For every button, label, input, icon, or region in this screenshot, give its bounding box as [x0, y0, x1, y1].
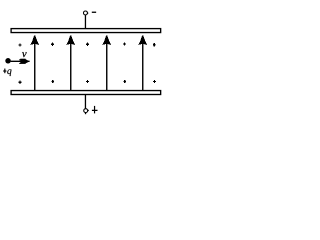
field dot upper 3: [86, 43, 89, 46]
field dot lower 3: [86, 80, 89, 83]
charge particle +q: [5, 58, 11, 64]
positive terminal circle right nub: [88, 110, 89, 111]
wire from bottom plate to positive terminal: [84, 94, 86, 108]
charge label plus sign: [3, 69, 6, 74]
electric field arrow E3 head: [102, 36, 111, 45]
electric field arrow E1 shaft: [34, 44, 36, 91]
electric field arrow E3 shaft: [106, 44, 108, 91]
field dot upper 1: [19, 43, 22, 46]
positive terminal circle: [84, 109, 88, 113]
electric field arrow E1 head: [30, 36, 39, 45]
field dot upper 4: [123, 42, 126, 45]
velocity arrow head: [19, 59, 28, 64]
field dot lower 5: [153, 80, 156, 83]
velocity label v: [22, 52, 27, 57]
plus label at positive terminal: [92, 106, 98, 114]
wire from negative terminal to top plate: [84, 15, 86, 28]
field dot lower 2: [51, 80, 54, 83]
electric field arrow E2 shaft: [70, 44, 72, 91]
negative terminal circle: [84, 11, 88, 15]
electric field arrow E4 shaft: [142, 44, 144, 91]
velocity arrow shaft: [11, 60, 30, 62]
top capacitor plate (negative plate): [11, 29, 161, 33]
electric field arrow E2 head: [66, 36, 75, 45]
field dot lower 4: [123, 80, 126, 83]
field dot upper 5: [153, 43, 156, 46]
bottom capacitor plate (positive plate): [11, 91, 161, 95]
charge label q: [7, 69, 11, 75]
field dot upper 2: [51, 43, 54, 46]
minus label at negative terminal: [92, 12, 96, 13]
electric field arrow E4 head: [138, 36, 147, 45]
negative terminal circle right nub: [87, 12, 88, 14]
positive terminal circle bottom nub: [85, 113, 86, 114]
field dot lower 1: [19, 80, 22, 83]
